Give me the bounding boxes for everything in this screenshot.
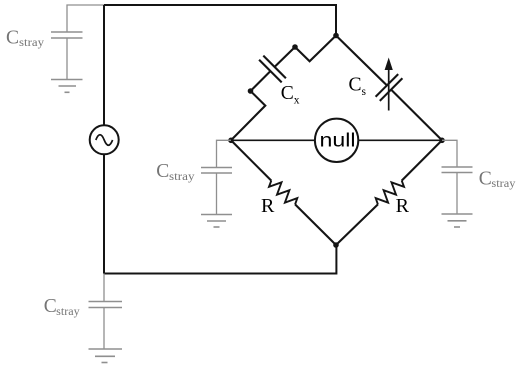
wire gray mid-left stub <box>217 140 232 167</box>
node right <box>439 138 445 144</box>
svg-text:stray: stray <box>169 169 195 183</box>
wire C_s arm lower <box>391 90 442 141</box>
wire left vertical lower <box>103 154 105 273</box>
svg-text:R: R <box>396 195 410 217</box>
svg-text:null: null <box>320 130 356 151</box>
wire gray top-left stub <box>67 5 104 32</box>
wire gray right stub <box>442 140 457 167</box>
capacitor C_stray right <box>442 167 473 214</box>
null detector <box>315 119 358 162</box>
wire null right <box>358 139 442 141</box>
wire R left arm lower <box>295 204 336 245</box>
wire left vertical upper <box>103 5 105 125</box>
wire R left arm upper <box>231 140 271 180</box>
ground right <box>442 214 473 227</box>
resistor R left <box>269 181 297 205</box>
node dot on C_x arm upper <box>292 44 298 50</box>
wire gray bottom-left stub <box>103 274 105 302</box>
capacitor C_s <box>376 74 403 101</box>
ground bottom-left <box>89 349 123 363</box>
svg-text:C: C <box>6 27 19 48</box>
ground mid-left <box>201 215 232 228</box>
svg-text:C: C <box>156 161 169 182</box>
source V1 <box>90 125 119 154</box>
node bottom <box>333 242 339 248</box>
wire C_s arm upper <box>336 36 387 86</box>
wire top rail <box>104 5 336 36</box>
svg-text:stray: stray <box>19 35 44 49</box>
capacitor C_stray mid-left <box>201 168 232 215</box>
wire null left <box>231 139 315 141</box>
resistor R right <box>376 181 404 205</box>
svg-text:stray: stray <box>56 304 79 318</box>
wire bottom rail <box>104 245 336 274</box>
ground top-left <box>51 80 83 93</box>
wire C_x arm lower zigzag <box>231 71 270 140</box>
arrow of variable capacitor C_s <box>385 58 393 111</box>
wire R right arm upper <box>402 140 442 180</box>
wire R right arm lower <box>336 204 378 245</box>
svg-text:R: R <box>261 195 275 217</box>
capacitor C_stray bottom-left <box>89 302 123 350</box>
svg-text:C: C <box>44 296 57 317</box>
wire C_x arm upper zigzag <box>275 36 336 67</box>
node dot on C_x arm lower <box>248 88 254 94</box>
node top <box>333 33 339 39</box>
svg-text:stray: stray <box>491 176 515 190</box>
svg-text:C: C <box>479 168 492 189</box>
capacitor C_stray top-left <box>51 32 83 80</box>
node left <box>228 138 234 144</box>
capacitor C_x <box>259 56 286 83</box>
